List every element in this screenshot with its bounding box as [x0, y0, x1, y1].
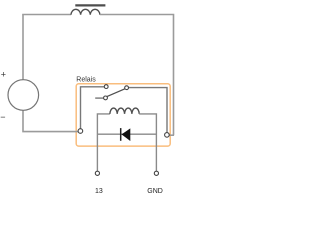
- relay coil K1: left lead down to pin 13: [97, 114, 110, 171]
- svg-text:GND: GND: [147, 188, 163, 195]
- inductor L1 core bar: [75, 4, 105, 6]
- inductor L1 (3 loops): [71, 9, 100, 14]
- wire: left terminal up and over to switch contact: [81, 87, 105, 131]
- wire: top left horizontal to inductor: [22, 14, 71, 16]
- wire: source bottom down and right to left terminal: [23, 110, 79, 132]
- diode D1 triangle: [122, 128, 131, 141]
- right box terminal node: [165, 133, 170, 138]
- wire: stub to switch pivot contact: [95, 97, 104, 99]
- diode D1 cathode bar: [120, 128, 122, 141]
- svg-text:−: −: [0, 112, 5, 122]
- svg-text:Relais: Relais: [76, 77, 96, 84]
- switch blade: [107, 89, 126, 97]
- GND terminal node: [154, 171, 158, 175]
- switch contact circle (NC, lower left): [104, 96, 108, 100]
- wire: inductor to top right corner and down right side: [100, 15, 174, 136]
- pin 13 terminal node: [95, 171, 99, 175]
- wire: source top up left side: [22, 15, 24, 81]
- relay coil K1: loops: [110, 108, 139, 114]
- switch contact circle (NO, upper left): [104, 85, 108, 89]
- left box terminal node: [78, 129, 83, 134]
- relay coil K1: right lead down to GND: [139, 114, 156, 171]
- svg-text:13: 13: [95, 188, 103, 195]
- voltage source V1: [8, 80, 39, 111]
- switch common contact circle: [125, 86, 129, 90]
- wire: switch common right and down to right terminal: [128, 88, 167, 133]
- relay enclosure box (orange): [76, 84, 170, 146]
- svg-text:+: +: [1, 69, 6, 79]
- wire: diode branch across coil: [97, 133, 156, 135]
- wire: into box to right terminal: [169, 134, 174, 136]
